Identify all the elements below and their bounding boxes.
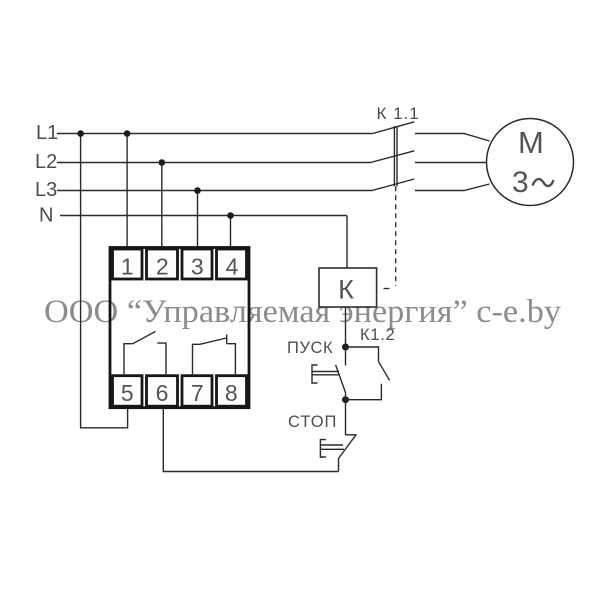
terminal 1 xyxy=(113,249,143,279)
wire phase outputs to motor xyxy=(415,134,490,191)
wire L2 drop to terminal 2 xyxy=(161,163,163,248)
svg-text:3: 3 xyxy=(191,254,204,280)
svg-text:2: 2 xyxy=(156,254,169,280)
contact K1.1 pole 1 blade xyxy=(373,122,415,134)
terminal 8 xyxy=(217,376,247,407)
motor M1 circle xyxy=(487,119,574,206)
wire N line xyxy=(60,215,347,217)
push button ПУСК (start, NO) xyxy=(312,347,346,400)
svg-text:4: 4 xyxy=(226,254,239,280)
wire terminal 6 to stop button bottom xyxy=(163,408,338,472)
start button actuator xyxy=(312,365,318,383)
terminal 4 xyxy=(217,249,247,279)
wire L3 line xyxy=(57,190,372,192)
relay internal contact 7-8 (NC) xyxy=(193,335,236,375)
node L3 junction dot xyxy=(194,187,201,194)
contact K1.1 pole 3 blade xyxy=(372,179,414,191)
wire coil K to start button xyxy=(345,307,347,347)
terminal 2 xyxy=(147,249,178,279)
svg-text:L3: L3 xyxy=(35,179,57,201)
relay module outline xyxy=(110,248,249,408)
svg-text:ПУСК: ПУСК xyxy=(287,339,333,357)
contact K1.2 (parallel, NO) xyxy=(346,347,390,400)
terminal 5 xyxy=(113,376,143,407)
svg-text:3: 3 xyxy=(512,166,529,199)
wire L1 drop to terminal 1 xyxy=(126,134,128,248)
node junction dot above start button xyxy=(342,344,349,351)
wire dash fragment at coil K right side xyxy=(384,288,390,290)
terminal 7 xyxy=(182,376,212,407)
svg-text:L2: L2 xyxy=(35,151,57,173)
svg-text:К: К xyxy=(338,275,354,305)
wire L1 drop to terminal 5 via left side xyxy=(81,134,128,428)
node N junction dot xyxy=(227,212,234,219)
svg-text:7: 7 xyxy=(191,380,204,406)
svg-text:N: N xyxy=(39,205,53,227)
svg-text:1: 1 xyxy=(121,254,134,280)
relay internal contact 5-6 (NO) xyxy=(124,331,166,374)
svg-text:6: 6 xyxy=(156,380,169,406)
node junction dot below start button xyxy=(342,396,349,403)
contact K1.1 three-pole xyxy=(371,122,415,191)
svg-text:M: M xyxy=(518,125,544,160)
wire dashed link K1.1 to coil K xyxy=(395,186,397,286)
node L2 junction dot xyxy=(159,159,166,166)
svg-text:СТОП: СТОП xyxy=(288,413,337,431)
svg-text:К1.2: К1.2 xyxy=(360,326,395,344)
contact K1.1 linkage bar xyxy=(393,126,395,186)
wire L1 line xyxy=(57,133,373,135)
contactor coil K box xyxy=(319,268,377,307)
wire N to coil K xyxy=(346,216,348,269)
svg-text:ООО “Управляемая энергия” с-e: ООО “Управляемая энергия” с-e.by xyxy=(44,294,562,330)
terminal 6 xyxy=(147,376,178,407)
wire N drop to terminal 4 xyxy=(230,216,232,248)
push button СТОП (stop, NC) xyxy=(320,400,356,472)
node L1 junction dot A xyxy=(77,130,84,137)
svg-text:5: 5 xyxy=(121,380,134,406)
svg-text:8: 8 xyxy=(225,380,238,406)
node L1 junction dot B xyxy=(124,130,131,137)
contact K1.1 pole 2 blade xyxy=(371,151,415,163)
stop button actuator xyxy=(320,440,326,457)
wire L3 drop to terminal 3 xyxy=(197,191,199,248)
terminal 3 xyxy=(182,249,212,279)
wire L2 line xyxy=(57,162,371,164)
svg-text:L1: L1 xyxy=(36,122,58,144)
svg-text:К 1.1: К 1.1 xyxy=(377,104,420,123)
